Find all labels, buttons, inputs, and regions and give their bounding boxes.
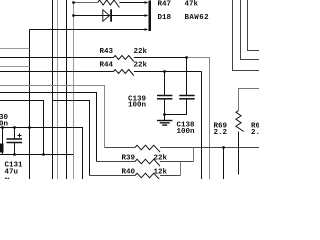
- svg-text:D18: D18: [158, 14, 172, 22]
- svg-text:100n: 100n: [177, 128, 196, 136]
- svg-text:BAW62: BAW62: [185, 14, 210, 22]
- svg-text:2.2: 2.2: [214, 129, 228, 137]
- svg-text:47k: 47k: [185, 1, 199, 9]
- svg-text:22k: 22k: [134, 62, 148, 70]
- svg-text:100n: 100n: [128, 102, 147, 110]
- svg-text:22k: 22k: [134, 48, 148, 56]
- svg-text:2.: 2.: [251, 129, 259, 137]
- svg-text:0n: 0n: [0, 121, 9, 129]
- svg-text:47u: 47u: [5, 169, 19, 177]
- svg-text:R39: R39: [122, 155, 136, 163]
- svg-text:22k: 22k: [154, 155, 168, 163]
- svg-text:R40: R40: [122, 169, 136, 177]
- svg-text:R47: R47: [158, 1, 172, 9]
- svg-text:R43: R43: [100, 48, 114, 56]
- svg-text:12k: 12k: [154, 169, 168, 177]
- svg-text:R44: R44: [100, 62, 114, 70]
